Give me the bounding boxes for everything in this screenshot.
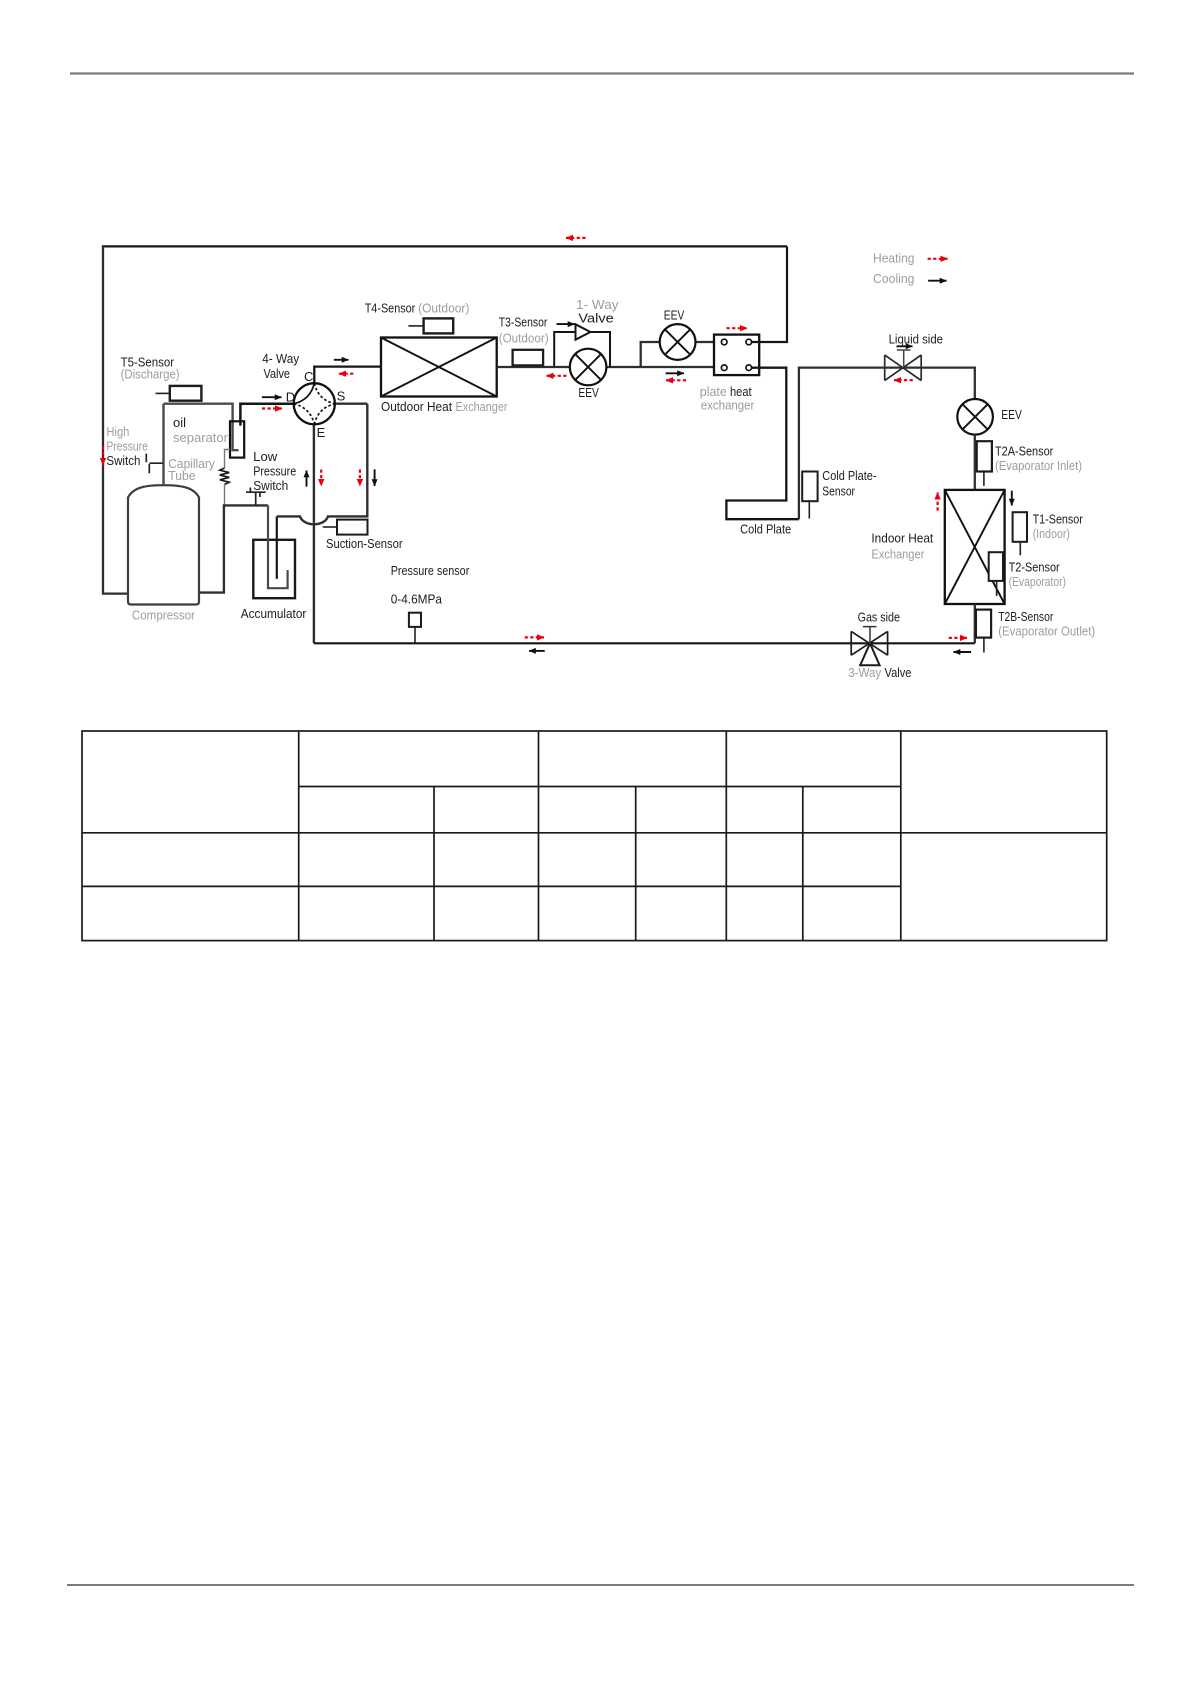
heating flow arrow into D port — [262, 407, 282, 409]
flow direction arrow of 1-way valve — [557, 323, 575, 325]
heating flow arrow below liquid valve — [894, 379, 913, 381]
svg-text:Exchanger: Exchanger — [871, 547, 924, 562]
cooling flow arrow left of plate hx — [666, 372, 684, 374]
svg-text:Valve: Valve — [578, 311, 613, 326]
wire: oil separator outlet to 4-way valve D — [240, 404, 293, 426]
wire: left rail down to compressor — [103, 246, 129, 593]
svg-text:4- Way: 4- Way — [262, 351, 299, 366]
heating flow arrow on C pipe — [339, 373, 353, 375]
wire: compressor discharge to oil separator (gray loop) — [164, 404, 239, 486]
svg-text:T2B-Sensor: T2B-Sensor — [998, 609, 1054, 624]
svg-text:Gas side: Gas side — [858, 610, 900, 625]
svg-text:Pressure: Pressure — [106, 439, 147, 454]
wire: indoor hx bottom to gas pipe — [974, 604, 976, 643]
EEV 2 (plate hx) — [660, 324, 696, 360]
svg-text:T4-Sensor: T4-Sensor — [365, 300, 416, 315]
svg-text:Low: Low — [253, 449, 278, 464]
svg-text:T2-Sensor: T2-Sensor — [1009, 560, 1061, 575]
cooling flow arrow right of indoor hx — [1011, 491, 1013, 506]
svg-text:Liquid side: Liquid side — [889, 332, 943, 347]
svg-text:Valve: Valve — [885, 665, 912, 680]
heating flow arrow left of indoor hx — [936, 493, 938, 511]
suction sensor box — [337, 520, 368, 535]
low pressure switch symbol — [246, 488, 266, 506]
bottom page rule — [67, 1584, 1134, 1586]
wire: riser to EEV2 — [641, 342, 714, 367]
1-way valve bypass — [554, 332, 610, 367]
svg-text:Switch: Switch — [253, 478, 288, 493]
indoor heat exchanger — [945, 490, 1005, 604]
wire: accumulator outlet through low pressure switch to compressor — [199, 505, 268, 592]
wire: E port line down to bottom pipe — [313, 424, 315, 643]
T2 sensor lead — [996, 581, 998, 596]
4-way valve — [294, 383, 335, 424]
oil separator vessel — [230, 421, 244, 457]
cooling flow arrow on C pipe — [334, 359, 349, 361]
svg-text:3-Way: 3-Way — [848, 665, 881, 680]
svg-text:(Outdoor): (Outdoor) — [499, 331, 549, 346]
T2B sensor box — [976, 610, 991, 638]
wire: plate hx bottom port down through cold plate — [726, 368, 799, 520]
T4 sensor lead — [408, 325, 423, 327]
svg-text:(Evaporator): (Evaporator) — [1009, 574, 1066, 589]
svg-text:T3-Sensor: T3-Sensor — [499, 315, 548, 330]
T2A sensor lead — [983, 472, 985, 486]
wire: bottom gas pipe — [314, 642, 975, 644]
T5 sensor lead — [156, 392, 170, 394]
svg-text:E: E — [317, 425, 326, 440]
svg-text:EEV: EEV — [1001, 407, 1022, 422]
svg-text:Compressor: Compressor — [132, 608, 196, 623]
svg-text:Tube: Tube — [168, 468, 195, 483]
T2A sensor box — [977, 441, 992, 471]
table — [82, 731, 1107, 941]
svg-text:EEV: EEV — [578, 385, 599, 400]
top page rule — [70, 72, 1134, 74]
svg-text:Outdoor Heat: Outdoor Heat — [381, 399, 452, 414]
svg-text:Suction-Sensor: Suction-Sensor — [326, 536, 403, 551]
T1 sensor box — [1013, 512, 1027, 542]
pressure sensor lead — [414, 627, 416, 643]
svg-text:0-4.6MPa: 0-4.6MPa — [391, 592, 443, 607]
heating flow arrow down on S line — [359, 470, 361, 487]
outdoor heat exchanger — [381, 338, 497, 397]
red heating arrow on top rail — [566, 237, 586, 239]
suction sensor lead — [323, 526, 337, 528]
svg-text:Switch: Switch — [106, 453, 140, 468]
wire: suction line from 4-way valve S down and left (with crossover hump) — [277, 404, 368, 525]
svg-text:Exchanger: Exchanger — [456, 399, 509, 414]
svg-text:(Evaporator Outlet): (Evaporator Outlet) — [998, 624, 1095, 639]
capillary tube line with coil — [225, 449, 231, 468]
svg-text:(Indoor): (Indoor) — [1033, 526, 1070, 541]
red heating arrow on left rail (high pressure side) — [102, 447, 104, 466]
wire: top rail of heating loop — [103, 245, 787, 246]
svg-text:Cold Plate: Cold Plate — [740, 522, 791, 537]
svg-text:C: C — [304, 369, 313, 384]
high pressure switch symbol — [146, 454, 163, 474]
svg-text:(Evaporator Inlet): (Evaporator Inlet) — [995, 458, 1082, 473]
svg-text:oil: oil — [173, 415, 186, 430]
svg-text:separator: separator — [173, 430, 229, 445]
svg-text:(Outdoor): (Outdoor) — [418, 300, 469, 315]
wire: C port up and right to outdoor heat exchanger — [314, 367, 381, 384]
wire: OHE to EEV1 and on to plate heat exchanger — [497, 366, 714, 368]
pressure sensor — [409, 613, 421, 627]
heating flow arrow above plate hx — [727, 327, 748, 329]
svg-text:exchanger: exchanger — [701, 398, 755, 413]
liquid side service valve — [885, 355, 922, 381]
T1 sensor lead — [1019, 542, 1021, 556]
heating flow arrow left of plate hx — [666, 379, 686, 381]
legend cooling arrow — [928, 280, 946, 282]
wire: EEV3 down to indoor heat exchanger — [974, 435, 976, 490]
EEV 3 (indoor) — [957, 399, 993, 435]
accumulator outlet J-tube — [268, 505, 288, 588]
wire: plate hx top port up to top rail — [752, 246, 787, 342]
EEV 1 (outdoor) — [570, 349, 607, 386]
T3 sensor box — [513, 350, 544, 366]
heating flow arrow on gas pipe — [525, 636, 544, 638]
svg-text:S: S — [337, 389, 346, 404]
svg-text:Cold Plate-: Cold Plate- — [822, 468, 876, 483]
T4 sensor box — [424, 318, 454, 333]
cooling flow arrow on gas pipe — [529, 650, 545, 652]
svg-text:Cooling: Cooling — [873, 271, 915, 286]
svg-text:Pressure: Pressure — [253, 464, 296, 479]
svg-text:Accumulator: Accumulator — [241, 606, 307, 621]
svg-text:D: D — [286, 389, 295, 404]
wire: liquid side pipe to right column — [799, 368, 975, 520]
T2 sensor box — [989, 552, 1003, 581]
svg-text:Sensor: Sensor — [822, 484, 855, 499]
wire: S port stub — [335, 403, 367, 405]
3-way valve (gas side) — [851, 631, 887, 655]
accumulator inlet pipe — [276, 516, 278, 578]
cooling flow arrow up on E line — [306, 471, 308, 487]
svg-text:High: High — [106, 424, 129, 439]
T5 sensor box (discharge) — [170, 386, 202, 401]
accumulator vessel — [253, 540, 295, 598]
svg-text:Pressure sensor: Pressure sensor — [391, 563, 470, 578]
T2B sensor lead — [983, 638, 985, 653]
svg-text:T2A-Sensor: T2A-Sensor — [995, 444, 1054, 459]
svg-text:EEV: EEV — [664, 307, 685, 322]
svg-text:Valve: Valve — [264, 366, 291, 381]
cooling flow arrow above liquid valve — [897, 345, 913, 347]
plate heat exchanger — [714, 335, 759, 376]
heating flow arrow left of EEV1 — [547, 375, 567, 377]
cooling flow arrow near T2B — [954, 651, 972, 653]
legend heating arrow — [928, 258, 948, 260]
svg-text:(Discharge): (Discharge) — [121, 367, 180, 382]
cooling flow arrow into D port — [262, 396, 282, 398]
cold plate sensor lead — [808, 501, 810, 518]
heating flow arrow near T2B — [949, 637, 967, 639]
cooling flow arrow down on S line — [374, 469, 376, 486]
svg-text:Heating: Heating — [873, 251, 915, 266]
heating flow arrow down on E line — [320, 470, 322, 487]
compressor — [128, 485, 199, 604]
cold plate sensor — [802, 472, 817, 502]
svg-text:Indoor Heat: Indoor Heat — [871, 530, 933, 545]
svg-text:T1-Sensor: T1-Sensor — [1033, 512, 1084, 527]
